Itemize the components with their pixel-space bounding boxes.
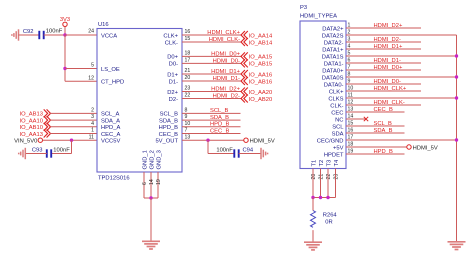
svg-text:SCL_B: SCL_B: [374, 121, 393, 127]
svg-text:4: 4: [91, 121, 94, 127]
svg-text:DATA2+: DATA2+: [322, 26, 344, 32]
ground (right of C94): [261, 148, 268, 159]
wire P3 pin 21: [320, 169, 322, 198]
svg-text:HDMI_D1-: HDMI_D1-: [213, 76, 240, 82]
svg-text:VCCA: VCCA: [101, 33, 117, 39]
svg-text:IO_AA15: IO_AA15: [249, 55, 273, 61]
off-page connector IO_AA15: [241, 52, 272, 60]
off-page connector IO_AA20: [241, 88, 272, 96]
svg-text:CLK+: CLK+: [163, 33, 178, 39]
svg-text:0R: 0R: [325, 220, 332, 226]
svg-text:IO_AB15: IO_AB15: [249, 62, 273, 68]
svg-text:HDMI_D0+: HDMI_D0+: [374, 65, 403, 71]
wire IO_AA10 to U16 pin 3: [50, 119, 97, 121]
junction ground bus pin 17: [455, 138, 458, 141]
svg-text:IO_AB16: IO_AB16: [249, 79, 273, 85]
wire U16 pin 16 net HDMI_CLK+: [182, 34, 241, 36]
svg-text:HDMI_D2-: HDMI_D2-: [213, 94, 240, 100]
svg-text:HDMI_D0-: HDMI_D0-: [374, 79, 401, 85]
svg-text:HDMI_D1-: HDMI_D1-: [374, 58, 401, 64]
svg-text:21: 21: [319, 174, 325, 180]
svg-text:22: 22: [185, 93, 191, 99]
wire R264 to ground: [312, 230, 314, 242]
svg-text:9: 9: [185, 114, 188, 120]
svg-text:CEC_B: CEC_B: [374, 107, 393, 113]
wire U16 pin 20 net HDMI_D1-: [182, 80, 241, 82]
svg-text:IO_AA10: IO_AA10: [19, 118, 43, 124]
svg-text:23: 23: [185, 86, 191, 92]
svg-text:T2: T2: [319, 160, 325, 167]
capacitor C93 100nF: [32, 148, 70, 158]
svg-text:SCL_A: SCL_A: [101, 112, 120, 118]
junction GND pins: [149, 196, 152, 199]
wire to U16 pin 5 LS_OE: [65, 68, 97, 70]
svg-text:6: 6: [142, 182, 148, 185]
svg-text:SDA_B: SDA_B: [159, 118, 178, 124]
svg-text:HDMI_D2+: HDMI_D2+: [374, 23, 403, 29]
svg-text:IO_AB13: IO_AB13: [19, 112, 43, 118]
junction 5V_OUT / C94: [206, 139, 209, 142]
svg-text:DATA0-: DATA0-: [324, 82, 344, 88]
wire C92 to 3V3 junction: [44, 34, 65, 36]
wire P3 pin 11 shield to ground bus: [346, 97, 457, 99]
svg-text:IO_AA13: IO_AA13: [19, 132, 43, 138]
wire U16 GND pin 6: [143, 172, 145, 198]
svg-text:IO_AA20: IO_AA20: [249, 90, 273, 96]
svg-text:HPD_A: HPD_A: [101, 125, 120, 131]
svg-text:HPD_B: HPD_B: [374, 149, 393, 155]
off-page connector IO_AA10: [19, 116, 50, 124]
wire U16 pin 23 net HDMI_D2+: [182, 91, 241, 93]
svg-text:20: 20: [185, 75, 191, 81]
node HDMI_5V (P3 side): [407, 145, 438, 152]
svg-text:24: 24: [88, 29, 94, 35]
svg-text:IO_AB20: IO_AB20: [249, 97, 273, 103]
svg-text:10: 10: [185, 121, 191, 127]
svg-text:HDMI_D0+: HDMI_D0+: [211, 51, 240, 57]
svg-text:R264: R264: [323, 213, 338, 219]
wire U16 pin 17 net HDMI_D0-: [182, 62, 241, 64]
wire P3 pin 19 net HPD_B: [346, 153, 405, 155]
off-page connector IO_AB20: [241, 95, 272, 103]
svg-text:SDA: SDA: [332, 131, 344, 137]
wire P3 pin 16 net SDA_B: [346, 132, 405, 134]
svg-text:DATA1+: DATA1+: [322, 47, 344, 53]
junction ground bus pin 5: [455, 54, 458, 57]
wire P3 pin 15 net SCL_B: [346, 125, 405, 127]
wire P3 pin 17 shield to ground bus: [346, 139, 457, 141]
off-page connector IO_AB13: [19, 109, 50, 117]
svg-text:HDMI_TYPEA: HDMI_TYPEA: [300, 14, 337, 20]
svg-text:SCL_B: SCL_B: [160, 112, 179, 118]
svg-text:HPD_B: HPD_B: [210, 122, 229, 128]
svg-text:HDMI_5V: HDMI_5V: [250, 139, 275, 145]
svg-text:HDMI_D1+: HDMI_D1+: [211, 69, 240, 75]
svg-text:17: 17: [185, 58, 191, 64]
svg-text:IO_AB10: IO_AB10: [19, 125, 43, 131]
wire U16 pin 21 net HDMI_D1+: [182, 73, 241, 75]
junction T pins: [326, 196, 329, 199]
svg-text:HDMI_5V: HDMI_5V: [413, 145, 438, 151]
ground (left of C93): [19, 148, 26, 159]
wire joining GND pins: [144, 197, 158, 199]
wire P3 pin 5 shield to ground bus: [346, 55, 457, 57]
svg-text:22: 22: [326, 174, 332, 180]
wire ground to C92: [19, 34, 40, 36]
junction T pins: [319, 196, 322, 199]
wire P3 pin 10 net HDMI_CLK+: [346, 90, 421, 92]
wire P3 pin 12 net HDMI_CLK-: [346, 104, 421, 106]
wire U16 GND pin 19: [157, 172, 159, 198]
svg-text:D2+: D2+: [167, 90, 178, 96]
svg-text:100nF: 100nF: [46, 29, 63, 35]
junction ground bus pin 11: [455, 96, 458, 99]
svg-text:7: 7: [185, 128, 188, 134]
svg-text:5: 5: [91, 63, 94, 69]
svg-text:15: 15: [185, 36, 191, 42]
wire U16 GND pin 14: [150, 172, 152, 198]
ground bus wire (right): [456, 35, 458, 242]
svg-text:HDMI_CLK-: HDMI_CLK-: [209, 37, 240, 43]
svg-text:DATA2-: DATA2-: [324, 40, 344, 46]
wire joining T pins: [313, 197, 336, 199]
svg-text:C93: C93: [32, 148, 43, 154]
wire U16 pin 15 net HDMI_CLK-: [182, 41, 241, 43]
svg-text:GND_1: GND_1: [142, 150, 148, 169]
svg-text:HDMI_D2+: HDMI_D2+: [211, 87, 240, 93]
svg-text:T3: T3: [326, 160, 332, 167]
wire P3 pin 22: [327, 169, 329, 198]
capacitor C94 100nF: [216, 148, 254, 158]
svg-text:100nF: 100nF: [216, 148, 233, 154]
svg-text:HPD_B: HPD_B: [159, 125, 178, 131]
wire U16 pin 18 net HDMI_D0+: [182, 55, 241, 57]
svg-text:DATA2S: DATA2S: [322, 33, 344, 39]
wire P3 pin 18 +5V to HDMI_5V: [346, 146, 407, 148]
svg-text:CT_HPD: CT_HPD: [101, 80, 124, 86]
wire P3 pin 9 net HDMI_D0-: [346, 83, 421, 85]
svg-text:20: 20: [311, 174, 317, 180]
svg-text:CEC: CEC: [331, 110, 343, 116]
junction at 3V3 rail / pin 24: [63, 33, 66, 36]
svg-text:HDMI_CLK-: HDMI_CLK-: [374, 100, 405, 106]
svg-text:T1: T1: [311, 160, 317, 167]
svg-text:LS_OE: LS_OE: [101, 67, 120, 73]
svg-text:D0+: D0+: [167, 55, 178, 61]
ground (bottom right): [448, 242, 466, 250]
svg-text:C94: C94: [243, 148, 254, 154]
svg-text:21: 21: [185, 68, 191, 74]
svg-text:12: 12: [88, 75, 94, 81]
svg-text:VIN_5V0: VIN_5V0: [14, 139, 37, 145]
wire C93 to ground: [25, 153, 47, 155]
svg-text:GND_2: GND_2: [149, 150, 155, 169]
svg-text:5V_OUT: 5V_OUT: [155, 139, 178, 145]
off-page connector IO_AB16: [241, 77, 272, 85]
wire U16 pin 22 net HDMI_D2-: [182, 98, 241, 100]
off-page connector IO_AA13: [19, 130, 50, 138]
wire T pins to R264: [312, 198, 314, 211]
svg-text:CLKS: CLKS: [328, 96, 343, 102]
off-page connector IO_AB15: [241, 59, 272, 67]
svg-text:CLK+: CLK+: [329, 89, 344, 95]
svg-text:D0-: D0-: [169, 62, 178, 68]
off-page connector IO_AB10: [19, 123, 50, 131]
wire P3 pin 20: [312, 169, 314, 198]
svg-text:NC: NC: [335, 117, 343, 123]
wire P3 pin 14 NC: [346, 118, 366, 120]
svg-text:DATA1S: DATA1S: [322, 54, 344, 60]
svg-text:CEC_A: CEC_A: [101, 132, 120, 138]
svg-text:SDA_A: SDA_A: [101, 118, 120, 124]
wire IO_AB13 to U16 pin 2: [50, 112, 97, 114]
svg-text:HDMI_D2-: HDMI_D2-: [374, 37, 401, 43]
svg-text:D1+: D1+: [167, 72, 178, 78]
svg-text:DATA0S: DATA0S: [322, 75, 344, 81]
wire P3 pin 23: [335, 169, 337, 198]
svg-text:T4: T4: [334, 159, 340, 167]
svg-text:DATA1-: DATA1-: [324, 61, 344, 67]
wire P3 pin 1 net HDMI_D2+: [346, 27, 421, 29]
svg-text:TPD12S016: TPD12S016: [98, 176, 130, 182]
off-page connector IO_AA14: [241, 31, 273, 39]
svg-text:HDMI_CLK+: HDMI_CLK+: [374, 86, 407, 92]
no-connect marker pin 14: [364, 117, 368, 121]
svg-text:3: 3: [91, 114, 94, 120]
junction T pins: [311, 196, 314, 199]
svg-text:HDMI_D0-: HDMI_D0-: [213, 58, 240, 64]
svg-text:U16: U16: [98, 22, 109, 28]
wire U16 pin 13 5V_OUT to HDMI_5V: [182, 139, 244, 141]
wire P3 pin 4 net HDMI_D1+: [346, 48, 421, 50]
svg-text:3V3: 3V3: [60, 17, 70, 23]
svg-text:IO_AA16: IO_AA16: [249, 72, 273, 78]
svg-text:CLK-: CLK-: [330, 103, 343, 109]
svg-text:VCC5V: VCC5V: [101, 139, 120, 145]
svg-text:8: 8: [185, 108, 188, 114]
svg-text:HPDET: HPDET: [324, 152, 344, 158]
svg-text:13: 13: [185, 134, 191, 140]
wire 3V3 rail down to LS_OE/CT_HPD: [64, 35, 66, 81]
wire VIN_5V0 to U16 pin 11 VCC5V: [43, 139, 98, 141]
svg-text:CEC_B: CEC_B: [159, 132, 178, 138]
connector P3 HDMI_TYPEA body: [300, 21, 346, 169]
wire P3 pin 3 net HDMI_D2-: [346, 41, 421, 43]
svg-text:P3: P3: [300, 5, 307, 11]
off-page connector IO_AA16: [241, 70, 272, 78]
junction at LS_OE branch: [63, 67, 66, 70]
svg-text:11: 11: [89, 134, 94, 140]
wire IO_AA13 to U16 pin 1: [50, 133, 97, 135]
wire U16 pin 7 net CEC_B: [182, 133, 241, 135]
wire P3 pin 8 shield to ground bus: [346, 76, 457, 78]
wire to U16 pin 12 CT_HPD: [65, 80, 97, 82]
resistor R264 0R: [311, 211, 338, 228]
wire P3 pin 13 net CEC_B: [346, 111, 405, 113]
wire U16 pin 9 net SDA_B: [182, 119, 241, 121]
off-page connector IO_AB14: [241, 38, 273, 46]
svg-text:16: 16: [185, 29, 191, 35]
ground (below R264): [304, 242, 322, 250]
svg-text:SDA_B: SDA_B: [210, 115, 229, 121]
svg-text:18: 18: [185, 51, 191, 57]
wire junction down to C93: [71, 140, 73, 153]
junction VIN_5V0 / C93: [70, 139, 73, 142]
wire junction to U16 pin 24 VCCA: [65, 34, 97, 36]
wire U16 pin 8 net SCL_B: [182, 112, 241, 114]
svg-text:CEC_B: CEC_B: [210, 128, 229, 134]
svg-text:D1-: D1-: [169, 79, 178, 85]
wire junction down to C94: [207, 140, 209, 153]
capacitor C92 100nF: [23, 29, 63, 40]
svg-text:IO_AA14: IO_AA14: [249, 33, 273, 39]
svg-text:2: 2: [91, 108, 94, 114]
svg-text:HDMI_D1+: HDMI_D1+: [374, 44, 403, 50]
svg-text:SDA_B: SDA_B: [374, 128, 393, 134]
wire P3 pin 2 shield to ground bus: [346, 34, 457, 36]
svg-text:SCL_B: SCL_B: [210, 108, 229, 114]
svg-text:14: 14: [149, 179, 155, 185]
power symbol 3V3: [60, 17, 70, 35]
wire U16 pin 10 net HPD_B: [182, 126, 241, 128]
node VIN_5V0: [14, 138, 42, 145]
svg-text:1: 1: [91, 128, 94, 134]
svg-text:SCL: SCL: [332, 124, 344, 130]
ground (left of C92): [12, 29, 19, 40]
svg-text:100nF: 100nF: [53, 148, 70, 154]
svg-text:HDMI_CLK+: HDMI_CLK+: [207, 30, 240, 36]
svg-text:DATA0+: DATA0+: [322, 68, 344, 74]
ground (below U16): [142, 241, 160, 249]
wire IO_AB10 to U16 pin 4: [50, 126, 97, 128]
svg-text:19: 19: [156, 179, 162, 185]
wire P3 pin 6 net HDMI_D1-: [346, 62, 421, 64]
svg-text:23: 23: [334, 174, 340, 180]
svg-text:CLK-: CLK-: [165, 40, 178, 46]
node HDMI_5V (U16 side): [244, 138, 275, 145]
IC U16 TPD12S016 body: [97, 29, 182, 173]
wire GND junction to ground: [150, 198, 152, 241]
wire C94 to ground: [239, 153, 261, 155]
junction ground bus pin 8: [455, 75, 458, 78]
svg-text:IO_AB14: IO_AB14: [249, 40, 273, 46]
svg-text:+5V: +5V: [333, 145, 344, 151]
svg-text:CEC/GND: CEC/GND: [317, 138, 344, 144]
svg-text:D2-: D2-: [169, 97, 178, 103]
svg-text:C92: C92: [23, 29, 34, 35]
wire P3 pin 7 net HDMI_D0+: [346, 69, 421, 71]
svg-text:GND_3: GND_3: [156, 150, 162, 169]
